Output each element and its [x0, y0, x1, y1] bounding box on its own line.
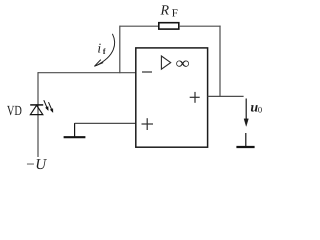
resistor RF: [159, 23, 179, 29]
light arrows: [44, 100, 53, 112]
wire feedback right leg: [219, 26, 221, 97]
ground noninverting input: [64, 123, 86, 137]
op-amp noninverting sign: [142, 118, 154, 130]
svg-text:F: F: [172, 8, 178, 20]
svg-text:f: f: [103, 47, 106, 56]
wire noninverting input: [75, 122, 137, 124]
svg-text:−U: −U: [25, 157, 47, 170]
svg-text:0: 0: [258, 104, 262, 114]
op-amp inverting sign: [142, 71, 152, 73]
current arrow if: [96, 34, 114, 66]
photodiode VD: [30, 105, 43, 115]
op-amp U1: [136, 48, 208, 147]
svg-text:R: R: [160, 4, 170, 19]
svg-text:i: i: [97, 41, 101, 56]
wire photodiode branch: [37, 72, 39, 157]
op-amp gain symbol: [161, 56, 170, 69]
voltage arrow uo: [244, 99, 248, 127]
wire feedback top right segment: [179, 25, 221, 27]
svg-text:VD: VD: [7, 104, 22, 119]
svg-text:∞: ∞: [176, 55, 191, 73]
wire feedback top left segment: [120, 25, 159, 27]
op-amp output polarity: [190, 92, 200, 103]
wire inverting input: [38, 72, 137, 74]
wire feedback left leg: [119, 26, 121, 74]
wire output: [208, 95, 244, 97]
output terminal ground: [236, 133, 254, 147]
